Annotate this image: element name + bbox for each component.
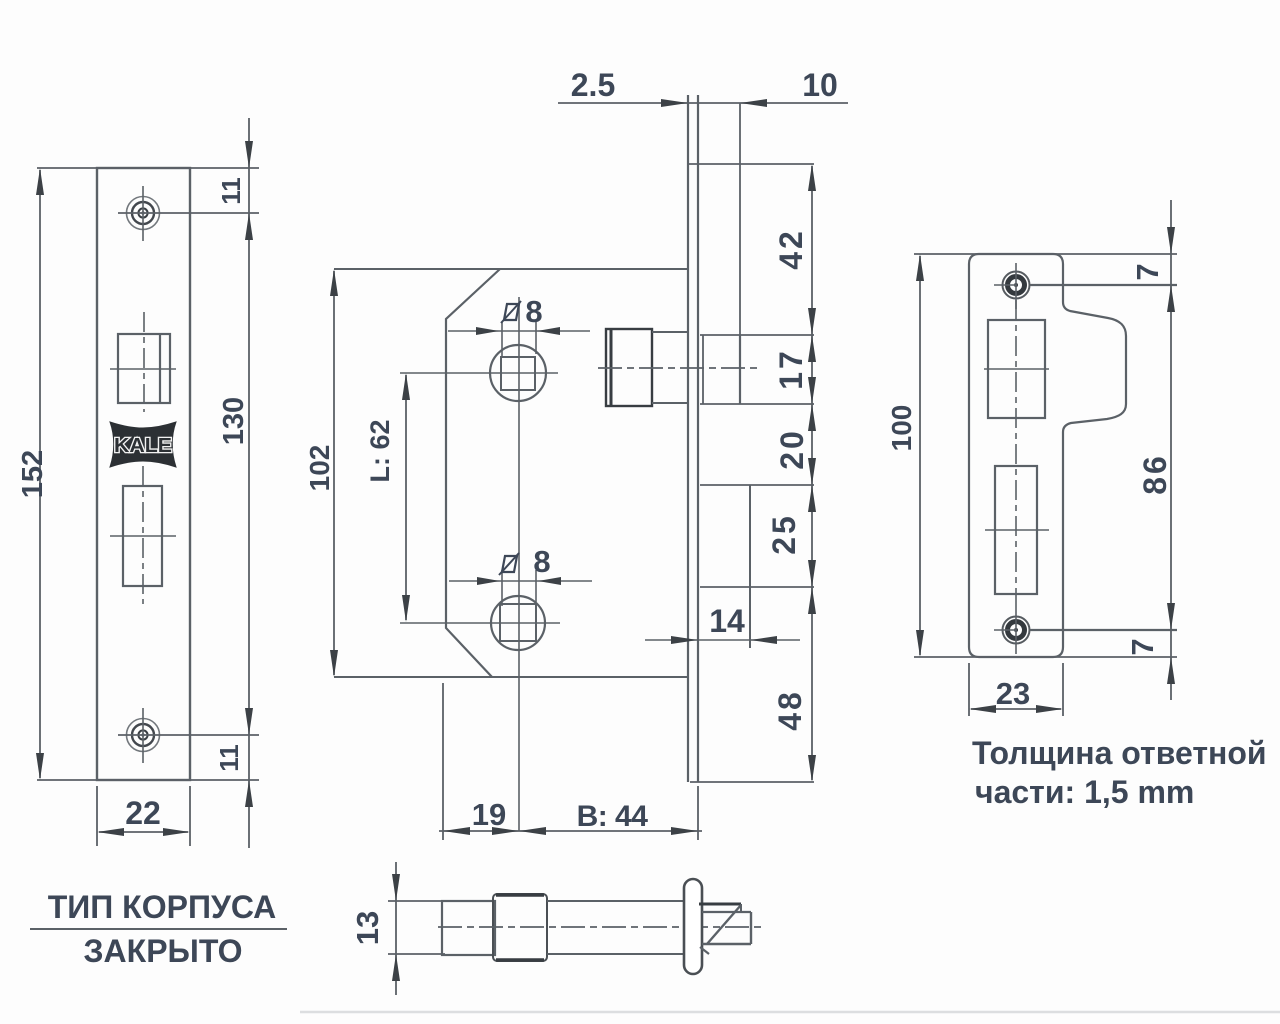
strike top edge extension bbox=[914, 253, 1177, 255]
svg-text:7: 7 bbox=[1130, 263, 1165, 280]
dimension 11 bottom text bbox=[214, 744, 244, 772]
dimension 102 text bbox=[304, 445, 335, 492]
side plate top edge extension bbox=[688, 163, 814, 165]
faceplate bottom edge extension line bbox=[37, 779, 259, 781]
lower square 8 dimension bbox=[449, 570, 592, 606]
svg-text:10: 10 bbox=[802, 67, 838, 103]
dimension 19 text bbox=[472, 797, 506, 832]
body bottom edge with extension bbox=[334, 676, 688, 678]
dimension B44 text bbox=[577, 800, 649, 833]
strike bottom edge extension bbox=[914, 656, 1177, 658]
dimension 130 text bbox=[218, 397, 250, 445]
side faceplate edge-on front line bbox=[687, 95, 689, 782]
svg-text:Толщина ответной: Толщина ответной bbox=[972, 735, 1267, 771]
note text line 2 bbox=[975, 774, 1194, 810]
dimension 23 extension lines bbox=[969, 663, 1063, 716]
strike deadbolt cutout center line bbox=[985, 529, 1049, 531]
dimension 22 line bbox=[97, 828, 190, 836]
dimension 102 line bbox=[330, 269, 338, 677]
top screw hole bbox=[127, 186, 160, 241]
svg-text:2.5: 2.5 bbox=[571, 67, 615, 103]
strike latch cutout bbox=[988, 320, 1045, 418]
strike plate outline bbox=[969, 254, 1126, 657]
latch window cutout bbox=[118, 334, 170, 403]
latch head back extension line bbox=[739, 103, 741, 335]
svg-text:8: 8 bbox=[533, 544, 550, 579]
dimension 100 line bbox=[916, 254, 924, 657]
strike top screw hole bbox=[994, 263, 1030, 309]
dimension 152 line bbox=[36, 168, 44, 780]
svg-text:20: 20 bbox=[774, 428, 810, 470]
strike bottom hole center extension bbox=[1030, 629, 1177, 631]
spindle axis center line bbox=[518, 297, 520, 831]
dimension 14 text bbox=[709, 603, 745, 639]
dimension 13 line bbox=[392, 862, 400, 995]
dimension 2.5 text bbox=[571, 67, 615, 103]
lower key hole bbox=[491, 596, 545, 650]
latch window center cross bbox=[110, 312, 176, 412]
side faceplate edge-on back line bbox=[697, 95, 699, 782]
side plate bottom edge extension bbox=[690, 781, 814, 783]
latch head protruding right edge bbox=[703, 335, 740, 404]
right chain 7-86-7 line bbox=[1167, 200, 1175, 700]
svg-text:части: 1,5 mm: части: 1,5 mm bbox=[975, 774, 1194, 810]
dimension 19 and B44 line bbox=[439, 827, 702, 835]
strike bottom screw hole bbox=[994, 608, 1030, 654]
dimension 10 text bbox=[802, 67, 838, 103]
svg-text:ЗАКРЫТО: ЗАКРЫТО bbox=[84, 933, 243, 969]
label ZAKRYTO bbox=[84, 933, 243, 969]
svg-text:14: 14 bbox=[709, 603, 745, 639]
note text line 1 bbox=[972, 735, 1267, 771]
strike vertical axis center line bbox=[1015, 300, 1017, 612]
svg-text:KALE: KALE bbox=[114, 435, 172, 457]
top dimension line 2.5 / 10 bbox=[558, 99, 848, 107]
svg-text:25: 25 bbox=[766, 513, 802, 555]
svg-text:11: 11 bbox=[216, 177, 246, 205]
upper square 8 dimension bbox=[448, 322, 590, 358]
upper dimension 8 text bbox=[525, 294, 542, 329]
deadbolt window cutout bbox=[123, 486, 162, 586]
dimension chain line 11-130-11 bbox=[245, 118, 253, 848]
latch head top edge with extension bbox=[700, 334, 814, 336]
dimension 23 text bbox=[996, 676, 1030, 711]
latch center line bbox=[598, 367, 762, 369]
svg-text:42: 42 bbox=[773, 228, 809, 270]
deadbolt window center cross bbox=[110, 466, 176, 604]
dimension 22 extension lines bbox=[97, 786, 190, 846]
dimension 152 text bbox=[17, 450, 49, 498]
dimension 14 line bbox=[645, 636, 800, 644]
faint page separator line bbox=[300, 1011, 1280, 1014]
svg-text:48: 48 bbox=[772, 689, 808, 731]
strike latch cutout center line bbox=[984, 368, 1049, 370]
dimension 20 text bbox=[774, 428, 810, 470]
latch bolt front view bbox=[606, 329, 689, 406]
top screw hole center line to dimension bbox=[118, 212, 259, 214]
dimension 100 text bbox=[886, 405, 917, 452]
dimension 48 text bbox=[772, 689, 808, 731]
latch head bottom edge with extension bbox=[700, 403, 814, 405]
faceplate front view outline bbox=[97, 168, 190, 780]
svg-text:11: 11 bbox=[214, 744, 244, 772]
svg-text:22: 22 bbox=[125, 795, 161, 831]
deadbolt pocket right edge bbox=[749, 485, 751, 648]
deadbolt pocket bottom edge with extension bbox=[700, 586, 814, 588]
lower square symbol bbox=[499, 553, 519, 575]
svg-text:86: 86 bbox=[1137, 453, 1173, 495]
dimension L62 text bbox=[365, 419, 395, 482]
latch axis center line bbox=[438, 926, 762, 928]
svg-text:19: 19 bbox=[472, 797, 506, 832]
dimension 7 top text bbox=[1130, 263, 1165, 280]
latch tail box bbox=[442, 901, 495, 955]
svg-text:152: 152 bbox=[17, 450, 49, 498]
svg-text:23: 23 bbox=[996, 676, 1030, 711]
svg-text:L: 62: L: 62 bbox=[365, 419, 395, 482]
svg-text:130: 130 bbox=[218, 397, 250, 445]
KALE logo bbox=[110, 422, 176, 467]
deadbolt pocket top edge with extension bbox=[700, 484, 814, 486]
strike top hole center extension bbox=[1030, 284, 1177, 286]
dimension 23 line bbox=[969, 705, 1063, 713]
dimension 11 top text bbox=[216, 177, 246, 205]
dimension 25 text bbox=[766, 513, 802, 555]
body left edge extension for 19 bbox=[442, 683, 444, 840]
dimension 17 text bbox=[773, 348, 809, 390]
label underline bbox=[30, 928, 287, 930]
right dimension chain line 42-17-20-25-48 bbox=[808, 164, 816, 782]
svg-text:17: 17 bbox=[773, 348, 809, 390]
body top edge with extension bbox=[334, 268, 688, 270]
bottom screw hole center line to dimension bbox=[118, 734, 259, 736]
faceplate top edge extension line bbox=[37, 167, 259, 169]
latch bolt head side view bbox=[699, 904, 751, 954]
dimension 13 text bbox=[350, 911, 385, 945]
label TIP KORPUSA bbox=[48, 889, 277, 925]
bottom screw hole bbox=[127, 708, 160, 763]
upper square symbol bbox=[501, 301, 521, 323]
svg-text:100: 100 bbox=[886, 405, 917, 452]
svg-text:102: 102 bbox=[304, 445, 335, 492]
faceplate edge-on stadium bbox=[684, 879, 702, 974]
dimension 13 extension lines bbox=[388, 901, 445, 954]
latch flange box bbox=[493, 894, 547, 961]
lower dimension 8 text bbox=[533, 544, 550, 579]
latch bar bottom line bbox=[547, 953, 684, 955]
svg-text:B: 44: B: 44 bbox=[577, 800, 649, 833]
lock body outline bbox=[446, 269, 500, 677]
svg-text:13: 13 bbox=[350, 911, 385, 945]
strike deadbolt cutout bbox=[995, 466, 1037, 594]
upper hole horizontal center line bbox=[400, 372, 558, 374]
svg-text:8: 8 bbox=[525, 294, 542, 329]
dimension 22 text bbox=[125, 795, 161, 831]
svg-text:7: 7 bbox=[1125, 638, 1160, 655]
faceplate extension for B44 bbox=[697, 786, 699, 840]
dimension 7 bottom text bbox=[1125, 638, 1160, 655]
svg-text:ТИП КОРПУСА: ТИП КОРПУСА bbox=[48, 889, 277, 925]
dimension 42 text bbox=[773, 228, 809, 270]
dimension L62 line bbox=[402, 373, 410, 622]
latch bar top line bbox=[547, 900, 684, 902]
dimension 86 text bbox=[1137, 453, 1173, 495]
upper follower hole bbox=[490, 345, 546, 401]
lower hole horizontal center line bbox=[400, 622, 560, 624]
